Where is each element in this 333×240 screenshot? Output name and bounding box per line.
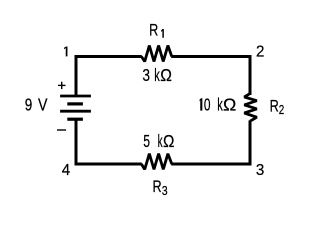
svg-text:R: R [149,22,158,40]
svg-text:R: R [270,98,279,116]
svg-text:2: 2 [256,43,264,60]
battery short plate 1 [67,102,83,105]
svg-text:Ω: Ω [160,65,172,85]
battery plus sign [58,82,66,89]
label R1 [149,22,164,40]
svg-text:V: V [38,95,48,115]
svg-text:4: 4 [62,162,71,179]
wire bottom left segment + left wire lower (node 4 corner) [76,120,142,164]
label 3 kOhm [142,65,172,86]
svg-text:2: 2 [279,104,284,118]
resistor R1 [141,46,171,62]
battery long plate 2 [60,110,91,113]
wire right lower + bottom right segment (node 3 corner) [171,121,250,165]
battery long plate 1 [60,95,91,98]
svg-text:0: 0 [204,95,211,115]
svg-text:9: 9 [25,96,33,115]
wire top right segment + right wire upper (node 2 corner) [171,57,250,96]
battery minus sign [57,129,66,131]
battery V1 plates [60,96,91,119]
svg-text:3: 3 [142,66,150,85]
resistor R2 [244,94,256,122]
label 5 kOhm [143,132,174,152]
label R2 [270,98,285,117]
label 10 kOhm [200,95,237,116]
svg-text:5: 5 [143,132,150,152]
svg-text:3: 3 [162,184,168,198]
svg-text:k: k [154,66,160,85]
svg-text:3: 3 [256,162,264,179]
svg-text:Ω: Ω [163,132,174,151]
label 9 V [25,95,48,115]
resistor R3 [141,154,171,170]
svg-text:R: R [153,179,162,197]
svg-text:Ω: Ω [223,95,236,115]
node 1 [64,47,67,57]
wire node1 corner: left wire upper + top wire left segment [76,57,142,97]
battery short plate 2 [67,118,83,121]
label R3 [153,179,169,198]
